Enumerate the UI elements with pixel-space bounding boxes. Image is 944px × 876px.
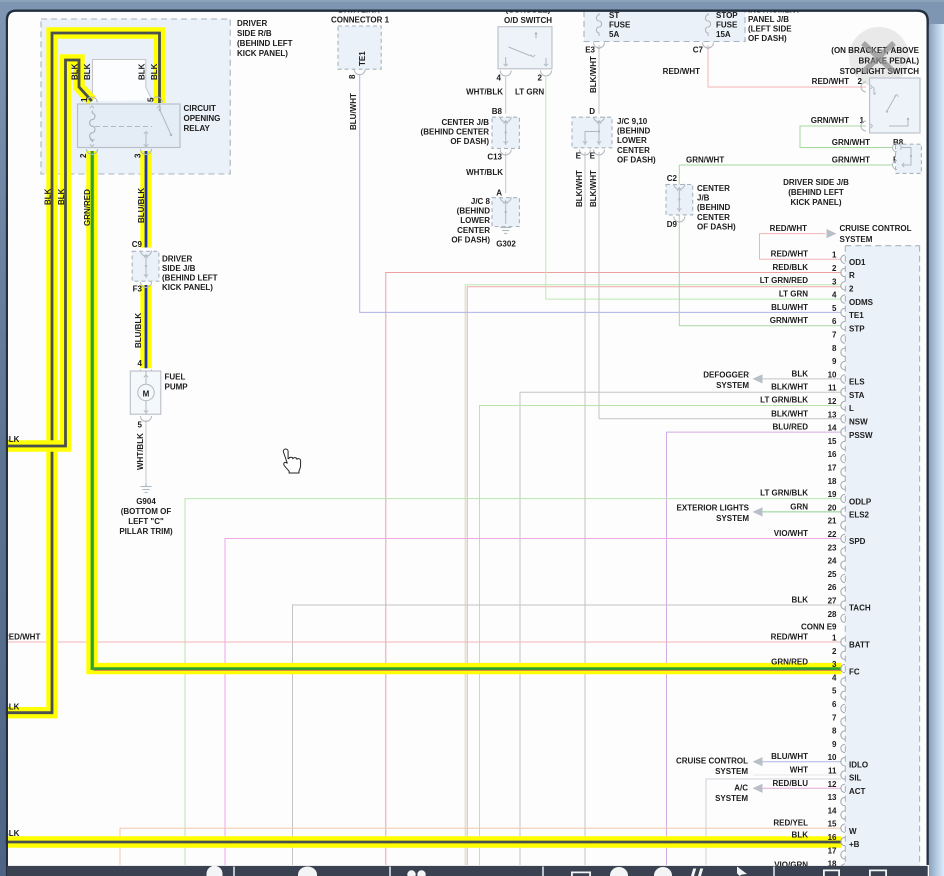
wire WHT/BLK C13 to A: [505, 152, 507, 193]
instrument panel J/B dashed box: [584, 11, 745, 42]
svg-text:3: 3: [832, 277, 837, 286]
C2/D9 internal wire: [678, 187, 680, 212]
svg-text:CONN E9: CONN E9: [801, 623, 837, 632]
svg-text:5: 5: [832, 687, 837, 696]
right J/B internal wire: [902, 148, 911, 166]
svg-text:GRN/WHT: GRN/WHT: [770, 316, 808, 325]
svg-text:CENTER: CENTER: [457, 226, 490, 235]
svg-text:22: 22: [828, 530, 837, 539]
icon pointer: [737, 867, 747, 876]
junction box C9/F3 dashed: [132, 251, 159, 281]
highlighted wire GRN/RED red stripe: [94, 151, 842, 670]
text CENTER J/B c2: [697, 184, 736, 231]
svg-text:ELS2: ELS2: [849, 511, 870, 520]
taskbar separator 1: [233, 867, 235, 876]
svg-text:SYSTEM: SYSTEM: [715, 767, 748, 776]
wire BLU/RED pin 14 with drop: [667, 432, 842, 865]
wire BLU/WHT pin B10 to cruise: [754, 761, 842, 763]
svg-text:ST: ST: [609, 11, 619, 20]
wire WHT pin B11: [754, 774, 842, 776]
svg-text:5A: 5A: [609, 30, 619, 39]
svg-text:BLU/BLK: BLU/BLK: [137, 188, 146, 223]
svg-text:CENTER: CENTER: [697, 184, 730, 193]
O/D switch box: [498, 27, 552, 69]
text DRIVER SIDE R/B: [237, 19, 293, 58]
ECU box dashed border: [845, 246, 919, 876]
wire BLK/WHT E3 to D: [598, 45, 600, 114]
arrow to defogger system: [753, 374, 763, 383]
icon zoom-out: [610, 867, 628, 876]
svg-text:23: 23: [828, 543, 837, 552]
svg-text:4: 4: [832, 673, 837, 682]
ECU connector box fill: [845, 246, 919, 876]
svg-text:SYSTEM: SYSTEM: [716, 514, 749, 523]
svg-text:ODLP: ODLP: [849, 497, 872, 506]
relay coil: [90, 111, 95, 143]
svg-text:PUMP: PUMP: [165, 383, 189, 392]
F3 bracket: [141, 282, 152, 288]
text G904 location: [119, 497, 173, 536]
svg-text:M: M: [143, 390, 150, 399]
svg-text:RED/WHT: RED/WHT: [771, 250, 808, 259]
svg-text:CENTER: CENTER: [617, 146, 650, 155]
wire RED/WHT pin B1 from left edge: [0, 641, 842, 643]
stoplight pin 2 bracket: [861, 82, 866, 92]
svg-text:ACT: ACT: [849, 787, 866, 796]
top window band: [0, 0, 944, 10]
O/D pin 4 bracket: [500, 71, 511, 77]
text CRUISE CONTROL SYSTEM bottom: [676, 757, 748, 777]
svg-text:OF DASH): OF DASH): [450, 137, 489, 146]
svg-text:TACH: TACH: [849, 604, 871, 613]
svg-text:8: 8: [832, 727, 837, 736]
C2 bracket: [674, 184, 685, 190]
svg-text:OD1: OD1: [849, 258, 866, 267]
text FUEL PUMP: [165, 373, 189, 392]
svg-text:BLU/BLK: BLU/BLK: [134, 313, 143, 348]
svg-text:SIDE J/B: SIDE J/B: [162, 264, 196, 273]
E bracket left: [580, 150, 591, 156]
svg-text:C2: C2: [667, 174, 678, 183]
svg-text:RED/WHT: RED/WHT: [771, 633, 808, 642]
svg-text:WHT: WHT: [790, 766, 808, 775]
svg-text:E3: E3: [585, 46, 595, 55]
svg-text:20: 20: [828, 503, 837, 512]
svg-text:B8: B8: [492, 107, 503, 116]
svg-text:A/C: A/C: [734, 783, 748, 792]
svg-text:PILLAR TRIM): PILLAR TRIM): [119, 527, 173, 536]
taskbar separator 3: [542, 867, 544, 876]
text CIRCUIT OPENING RELAY: [184, 104, 221, 133]
svg-text:G302: G302: [496, 240, 516, 249]
svg-text:BLU/RED: BLU/RED: [772, 423, 808, 432]
svg-text:BLU/WHT: BLU/WHT: [771, 303, 808, 312]
svg-text:21: 21: [828, 517, 837, 526]
O/D pin 2 bracket: [541, 71, 552, 77]
svg-text:14: 14: [828, 806, 837, 815]
B8/C13 internal wire: [505, 120, 507, 145]
svg-text:RED/BLU: RED/BLU: [772, 779, 808, 788]
top-left corner outside patch: [5, 9, 20, 24]
E1 bracket right: [893, 161, 898, 170]
svg-text:12: 12: [828, 780, 837, 789]
fuel pump pin4 bracket: [141, 370, 152, 376]
svg-text:1: 1: [832, 251, 837, 260]
J/C8 internal wire: [505, 200, 507, 224]
wire BLU/WHT from TE1 to pin 5: [360, 74, 842, 313]
svg-text:STA: STA: [849, 391, 865, 400]
svg-text:RED/WHT: RED/WHT: [812, 77, 849, 86]
svg-text:4: 4: [832, 291, 837, 300]
svg-text:OF DASH): OF DASH): [697, 222, 736, 231]
svg-text:FUSE: FUSE: [609, 21, 631, 30]
relay pin 3 bracket: [141, 149, 152, 155]
svg-text:17: 17: [828, 846, 837, 855]
text CRUISE CONTROL SYSTEM top: [840, 224, 912, 244]
text J/C 9 10 location: [617, 117, 656, 164]
TE1 box dashed: [338, 26, 381, 69]
fuse ST 5A: [596, 13, 601, 36]
svg-text:15: 15: [828, 820, 837, 829]
icon pan bars: [691, 869, 703, 876]
svg-text:BATT: BATT: [849, 641, 870, 650]
E3 bracket: [594, 43, 605, 49]
svg-text:5: 5: [138, 421, 143, 430]
wire VIO/WHT pin 22 with drop: [225, 539, 842, 866]
svg-text:12: 12: [828, 397, 837, 406]
highlighted wire BLU/BLK relay pin 3 to C9: [140, 151, 151, 248]
O/D pin4 lead: [504, 64, 508, 66]
svg-text:L: L: [849, 404, 854, 413]
svg-text:GRN/WHT: GRN/WHT: [832, 156, 870, 165]
svg-text:GRN/WHT: GRN/WHT: [811, 116, 849, 125]
svg-text:FC: FC: [849, 667, 860, 676]
svg-text:NSW: NSW: [849, 418, 868, 427]
wire WHT/BLK od to B8: [505, 77, 507, 114]
svg-text:LEFT "C": LEFT "C": [128, 517, 164, 526]
svg-text:J/B: J/B: [697, 194, 710, 203]
svg-text:BLK: BLK: [83, 63, 92, 80]
svg-text:R: R: [849, 271, 855, 280]
svg-text:GRN/WHT: GRN/WHT: [832, 138, 870, 147]
TE1 bracket: [354, 69, 365, 75]
svg-text:GRN/RED: GRN/RED: [771, 658, 808, 667]
wire RED/BLK pin 2 with drop: [386, 273, 842, 866]
svg-text:6: 6: [832, 700, 837, 709]
icon zoom-in: [654, 867, 672, 876]
relay dashed link: [95, 126, 152, 128]
svg-text:CRUISE CONTROL: CRUISE CONTROL: [676, 757, 748, 766]
A bracket: [500, 197, 511, 203]
svg-text:26: 26: [828, 583, 837, 592]
fuse STOP 15A: [705, 13, 710, 36]
svg-text:9: 9: [832, 740, 837, 749]
svg-text:RED/WHT: RED/WHT: [770, 224, 807, 233]
svg-text:2: 2: [832, 647, 837, 656]
junction box J/C 9 10 dashed: [572, 117, 612, 148]
svg-text:BLK: BLK: [150, 63, 159, 80]
icon gear top: [207, 866, 223, 876]
text A/C SYSTEM: [715, 783, 748, 803]
top-right corner outside patch: [916, 9, 944, 26]
stoplight switch box: [870, 78, 920, 133]
svg-text:KICK PANEL): KICK PANEL): [237, 49, 288, 58]
wire GRN/WHT E1 run: [679, 164, 893, 166]
svg-text:BLK: BLK: [71, 63, 80, 80]
relay pin 2 bracket: [87, 149, 98, 155]
svg-text:TE1: TE1: [358, 51, 367, 66]
ECU pin numbers: [828, 251, 837, 869]
svg-text:E: E: [576, 152, 582, 161]
svg-text:LOWER: LOWER: [460, 216, 490, 225]
svg-text:STOPLIGHT SWITCH: STOPLIGHT SWITCH: [840, 67, 920, 76]
svg-text:BLK: BLK: [44, 188, 53, 205]
svg-text:EXTERIOR LIGHTS: EXTERIOR LIGHTS: [677, 503, 750, 512]
text PANEL J/B: [748, 15, 792, 43]
svg-text:SYSTEM: SYSTEM: [840, 235, 873, 244]
svg-text:GRN: GRN: [790, 502, 808, 511]
svg-text:J/C 9,10: J/C 9,10: [617, 117, 648, 126]
svg-text:LT GRN: LT GRN: [779, 290, 808, 299]
svg-text:1: 1: [832, 634, 837, 643]
svg-text:(BEHIND LEFT: (BEHIND LEFT: [237, 39, 293, 48]
svg-text:ODMS: ODMS: [849, 298, 874, 307]
O/D switch contact: [535, 32, 538, 35]
svg-text:RED/WHT: RED/WHT: [663, 67, 700, 76]
taskbar: [7, 866, 928, 876]
svg-text:DRIVER: DRIVER: [162, 254, 192, 263]
svg-text:7: 7: [832, 331, 837, 340]
relay pin3 lead: [145, 133, 147, 148]
svg-text:E: E: [590, 152, 596, 161]
wire LT GRN/BLK pin 19 with drop: [185, 499, 842, 865]
C9 bracket: [141, 251, 152, 257]
svg-text:GRN/WHT: GRN/WHT: [686, 156, 724, 165]
svg-text:BLK: BLK: [792, 369, 809, 378]
svg-text:J/C 8: J/C 8: [471, 197, 491, 206]
svg-text:BLK: BLK: [792, 831, 809, 840]
svg-text:2: 2: [538, 74, 543, 83]
svg-text:8: 8: [348, 74, 357, 79]
mouse cursor hand: [283, 449, 300, 473]
svg-text:RELAY: RELAY: [184, 124, 211, 133]
svg-text:SYSTEM: SYSTEM: [716, 381, 749, 390]
svg-text:(BEHIND LEFT: (BEHIND LEFT: [788, 188, 844, 197]
text CENTER J/B: [421, 118, 490, 146]
stoplight switch internals: [873, 87, 875, 92]
relay coil arrows: [90, 139, 94, 141]
O/D pin2 lead: [544, 64, 548, 66]
right window edge gradient: [929, 24, 944, 876]
C9/F3 internal wire: [145, 254, 147, 278]
arrow to exterior lights system: [753, 507, 763, 516]
svg-text:BLU/WHT: BLU/WHT: [771, 752, 808, 761]
left window strip: [0, 10, 6, 876]
relay pin 5 bracket: [152, 97, 163, 103]
svg-text:CENTER J/B: CENTER J/B: [441, 118, 489, 127]
wire BLK pin 10 to defogger: [754, 378, 842, 380]
wire LT GRN from O/D switch to pin 4: [546, 77, 842, 299]
svg-text:(BEHIND: (BEHIND: [697, 203, 731, 212]
highlighted wire BLU/BLK F3 to fuel pump pin 4: [140, 285, 151, 368]
wire BLK/WHT E right to pin13: [598, 152, 600, 419]
svg-text:5: 5: [832, 304, 837, 313]
svg-text:2: 2: [79, 153, 88, 158]
svg-text:FUEL: FUEL: [165, 373, 186, 382]
icon frame 1: [823, 870, 840, 876]
gray wire loop relay pin1 to pin5: [93, 60, 153, 102]
svg-text:C9: C9: [132, 240, 143, 249]
highlighted wire BLK relay pin 5 to left edge: [0, 33, 160, 713]
B8 bracket: [500, 117, 511, 123]
svg-text:LT GRN/RED: LT GRN/RED: [760, 276, 809, 285]
svg-text:VIO/WHT: VIO/WHT: [774, 529, 808, 538]
wire BLK/WHT pin 13 from J/C 9 10: [599, 418, 842, 420]
svg-text:(BEHIND: (BEHIND: [617, 127, 651, 136]
icon circle top: [298, 867, 317, 876]
wire RED/WHT pin 1: [760, 258, 842, 260]
svg-text:CENTER: CENTER: [697, 213, 730, 222]
relay box: [78, 104, 181, 148]
E bracket right: [594, 150, 605, 156]
highlighted wire BLK hairpin to relay pin 1: [0, 60, 92, 446]
svg-text:7: 7: [832, 713, 837, 722]
svg-text:11: 11: [828, 767, 837, 776]
C7 bracket: [703, 43, 714, 49]
svg-text:D: D: [589, 107, 595, 116]
svg-text:5: 5: [147, 97, 156, 102]
D bracket: [594, 117, 605, 123]
svg-text:(BEHIND CENTER: (BEHIND CENTER: [421, 128, 490, 137]
svg-text:RED/BLK: RED/BLK: [772, 263, 808, 272]
C13 bracket: [500, 150, 511, 156]
text ST FUSE 5A: [609, 11, 631, 39]
svg-text:(BOTTOM OF: (BOTTOM OF: [121, 507, 172, 516]
text ON BRACKET ABOVE BRAKE PEDAL: [831, 46, 919, 76]
svg-text:KICK PANEL): KICK PANEL): [162, 283, 213, 292]
svg-text:SIL: SIL: [849, 774, 862, 783]
svg-text:17: 17: [828, 464, 837, 473]
svg-text:PSSW: PSSW: [849, 431, 873, 440]
svg-text:WHT/BLK: WHT/BLK: [466, 88, 503, 97]
B8 bracket right: [893, 143, 898, 152]
svg-text:SPD: SPD: [849, 537, 866, 546]
svg-text:28: 28: [828, 610, 837, 619]
wire RED/WHT to cruise arrow: [760, 234, 826, 260]
svg-text:RED/WHT: RED/WHT: [3, 633, 40, 642]
arrow to cruise control system: [827, 229, 837, 238]
svg-text:15: 15: [828, 437, 837, 446]
stoplight pin 1 bracket: [861, 121, 866, 131]
svg-text:13: 13: [828, 410, 837, 419]
svg-text:2: 2: [832, 264, 837, 273]
text STOP FUSE 15A: [716, 11, 738, 39]
svg-text:3: 3: [832, 660, 837, 669]
svg-text:IDLO: IDLO: [849, 760, 868, 769]
taskbar separator 4: [773, 867, 775, 876]
text DEFOGGER SYSTEM: [703, 370, 749, 390]
svg-text:OPENING: OPENING: [184, 114, 221, 123]
svg-text:WHT/BLK: WHT/BLK: [136, 433, 145, 470]
svg-text:DRIVER SIDE J/B: DRIVER SIDE J/B: [783, 178, 849, 187]
svg-text:LT GRN/BLK: LT GRN/BLK: [760, 396, 808, 405]
wire RED/BLU pin B12 to a/c: [754, 787, 842, 789]
watermark circle: [849, 27, 909, 87]
svg-text:4: 4: [497, 74, 502, 83]
svg-text:4: 4: [138, 359, 143, 368]
wire BLK/WHT pin 11 with drop: [520, 392, 842, 865]
svg-text:CIRCUIT: CIRCUIT: [184, 104, 217, 113]
svg-text:WHT/BLK: WHT/BLK: [466, 168, 503, 177]
svg-text:D9: D9: [667, 220, 678, 229]
svg-text:GRN/RED: GRN/RED: [83, 189, 92, 226]
highlighted wire GRN/RED relay pin 2 to ECU pin B3: [92, 151, 842, 669]
svg-text:3: 3: [134, 153, 143, 158]
relay pin 1 bracket: [86, 97, 97, 103]
svg-text:8: 8: [832, 344, 837, 353]
svg-text:STOP: STOP: [716, 11, 738, 20]
svg-text:BLK: BLK: [57, 188, 66, 205]
text DRIVER SIDE J/B: [162, 254, 218, 292]
svg-text:16: 16: [828, 833, 837, 842]
ground G904: [141, 483, 152, 493]
svg-text:BLK/WHT: BLK/WHT: [575, 170, 584, 207]
taskbar separator 2: [389, 867, 391, 876]
svg-text:15A: 15A: [716, 30, 731, 39]
svg-text:CONNECTOR 1: CONNECTOR 1: [331, 15, 390, 24]
svg-text:G904: G904: [136, 497, 156, 506]
svg-text:LT GRN/BLK: LT GRN/BLK: [760, 489, 808, 498]
svg-text:TE1: TE1: [849, 311, 864, 320]
svg-text:BLK/WHT: BLK/WHT: [589, 56, 598, 93]
svg-text:LOWER: LOWER: [617, 136, 647, 145]
svg-text:ELS: ELS: [849, 378, 865, 387]
wire BLK pin 27 with drop: [293, 605, 842, 865]
text DRIVER SIDE J/B right: [783, 178, 849, 207]
icon people: [407, 870, 415, 876]
wire LT GRN/BLK pin 12 with drop: [480, 406, 842, 866]
svg-text:OF DASH): OF DASH): [617, 155, 656, 164]
svg-text:OF DASH): OF DASH): [748, 34, 787, 43]
J/C 9 10 internal wires: [598, 120, 600, 145]
svg-text:+B: +B: [849, 840, 860, 849]
svg-text:BLU/WHT: BLU/WHT: [349, 93, 358, 130]
svg-text:10: 10: [828, 370, 837, 379]
svg-text:9: 9: [832, 357, 837, 366]
svg-text:F3: F3: [133, 285, 143, 294]
wire GRN/WHT from C2 to pin 6: [679, 165, 841, 326]
junction box J/C 8 dashed: [492, 198, 519, 227]
driver side J/B right box dashed: [896, 144, 922, 173]
relay switch contact: [159, 109, 162, 112]
svg-text:SIDE R/B: SIDE R/B: [237, 29, 272, 38]
wire GRN pin 20 to exterior lights: [754, 511, 842, 513]
svg-text:SYSTEM: SYSTEM: [715, 794, 748, 803]
svg-text:FUSE: FUSE: [716, 21, 738, 30]
svg-text:16: 16: [828, 450, 837, 459]
wire WHT/BLK fuel pump to ground: [145, 420, 147, 484]
highlighted wire BLK left edge to ECU pin B16: [0, 836, 842, 847]
svg-text:LT GRN: LT GRN: [515, 88, 544, 97]
svg-text:CRUISE CONTROL: CRUISE CONTROL: [840, 224, 912, 233]
svg-text:W: W: [849, 827, 857, 836]
ECU terminal names: [849, 258, 874, 849]
dashed box DRIVER SIDE R/B: [41, 19, 230, 174]
svg-text:C7: C7: [693, 46, 704, 55]
svg-text:DEFOGGER: DEFOGGER: [703, 370, 749, 379]
watermark X: [863, 43, 894, 72]
svg-text:BLK/WHT: BLK/WHT: [589, 170, 598, 207]
